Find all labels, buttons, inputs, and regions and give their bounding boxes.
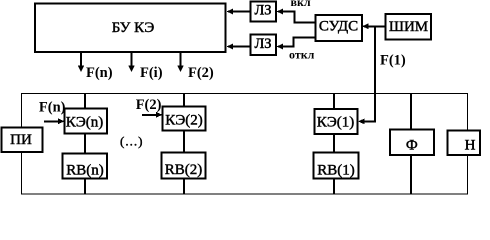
wire arrow SHIM to SUDS bbox=[362, 23, 386, 29]
rail column KE(1) upper bbox=[333, 94, 335, 110]
svg-text:F(i): F(i) bbox=[140, 65, 163, 81]
svg-text:F(1): F(1) bbox=[380, 52, 406, 68]
rail column KE(2) middle bbox=[183, 131, 185, 153]
svg-text:ШИМ: ШИМ bbox=[389, 19, 428, 35]
block F (Ф filter) bbox=[390, 130, 434, 156]
wire arrow LZ2 to BU KE bbox=[227, 44, 251, 50]
rail column F lower bbox=[410, 155, 412, 194]
wire F(1) from SHIM line down to KE(1) with arrow bbox=[358, 26, 375, 124]
svg-text:вкл: вкл bbox=[291, 0, 311, 9]
svg-text:КЭ(1): КЭ(1) bbox=[317, 115, 355, 131]
block PI (ПИ) bbox=[2, 128, 43, 153]
outer enclosure rectangle bbox=[22, 94, 468, 195]
wire SUDS to LZ2 with arrow bbox=[277, 38, 316, 50]
rail column F upper bbox=[410, 94, 412, 130]
svg-text:ПИ: ПИ bbox=[10, 132, 32, 148]
svg-text:ЛЗ: ЛЗ bbox=[254, 3, 271, 19]
block RB(n) bbox=[63, 154, 108, 179]
svg-text:(...): (...) bbox=[120, 134, 143, 149]
block BU KE (БУ КЭ) bbox=[35, 4, 226, 53]
svg-text:F(n): F(n) bbox=[86, 65, 113, 81]
rail column KE(2) lower bbox=[183, 179, 185, 195]
svg-text:RB(1): RB(1) bbox=[317, 162, 355, 178]
svg-text:Н: Н bbox=[465, 138, 476, 154]
wire arrow F(i) down from BU KE bbox=[128, 52, 134, 72]
svg-text:Ф: Ф bbox=[406, 138, 418, 154]
svg-text:БУ КЭ: БУ КЭ bbox=[112, 20, 155, 36]
wire arrow F(2) into KE(2) bbox=[142, 112, 163, 118]
rail column KE(n) lower bbox=[84, 179, 86, 195]
rail column KE(n) upper bbox=[84, 94, 86, 109]
wire SUDS to LZ1 with arrow bbox=[277, 9, 316, 23]
wire arrow F(n) into KE(n) bbox=[44, 118, 65, 124]
svg-text:КЭ(n): КЭ(n) bbox=[66, 114, 104, 130]
svg-text:откл: откл bbox=[289, 48, 315, 62]
block SHIM (ШИМ) bbox=[386, 14, 432, 40]
svg-text:КЭ(2): КЭ(2) bbox=[165, 113, 203, 129]
block KE(n) (КЭ(n)) bbox=[65, 109, 108, 134]
wire arrow F(n) down from BU KE bbox=[78, 52, 84, 72]
svg-text:F(2): F(2) bbox=[136, 97, 162, 113]
svg-text:RB(2): RB(2) bbox=[165, 162, 203, 178]
block N (Н load) bbox=[448, 131, 481, 156]
block RB(2) bbox=[162, 153, 206, 179]
wire arrow LZ1 to BU KE bbox=[227, 9, 251, 15]
block KE(2) (КЭ(2)) bbox=[163, 107, 206, 131]
block LZ2 (ЛЗ lower delay line) bbox=[251, 35, 277, 56]
rail column KE(1) middle bbox=[333, 134, 335, 153]
rail column KE(2) upper bbox=[183, 94, 185, 107]
block SUDS (СУДС) bbox=[316, 15, 363, 41]
rail column KE(1) lower bbox=[333, 179, 335, 195]
svg-text:F(n): F(n) bbox=[39, 99, 66, 115]
wire arrow F(2) down from BU KE bbox=[177, 52, 183, 72]
svg-text:ЛЗ: ЛЗ bbox=[254, 36, 271, 52]
svg-text:СУДС: СУДС bbox=[319, 19, 358, 35]
block KE(1) (КЭ(1)) bbox=[315, 109, 358, 134]
block LZ1 (ЛЗ upper delay line) bbox=[251, 2, 277, 22]
block RB(1) bbox=[314, 153, 359, 179]
svg-text:F(2): F(2) bbox=[188, 65, 214, 81]
rail column KE(n) middle bbox=[84, 134, 86, 154]
svg-text:RB(n): RB(n) bbox=[66, 162, 104, 178]
